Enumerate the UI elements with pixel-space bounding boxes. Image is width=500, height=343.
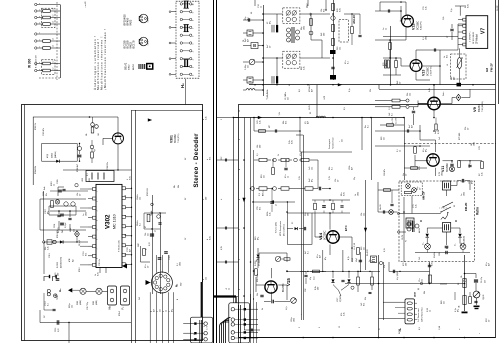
svg-text:100k: 100k bbox=[474, 142, 476, 146]
svg-text:R302: R302 bbox=[93, 301, 95, 305]
svg-text:Osc.: Osc. bbox=[305, 2, 309, 8]
svg-text:560: 560 bbox=[324, 33, 326, 36]
svg-text:G8: G8 bbox=[485, 68, 489, 72]
svg-text:0,1µ: 0,1µ bbox=[451, 8, 453, 12]
svg-text:4k7: 4k7 bbox=[312, 89, 314, 92]
svg-text:22n: 22n bbox=[444, 301, 446, 304]
svg-text:1k: 1k bbox=[430, 310, 432, 312]
svg-text:T 93 (07%): T 93 (07%) bbox=[178, 133, 180, 143]
svg-text:BC258C: BC258C bbox=[446, 163, 449, 172]
svg-text:↓: ↓ bbox=[300, 314, 303, 315]
svg-text:7: 7 bbox=[97, 248, 99, 249]
svg-text:BC238C: BC238C bbox=[427, 67, 430, 76]
svg-text:R1: R1 bbox=[310, 112, 312, 114]
svg-text:(0): (0) bbox=[305, 121, 307, 124]
svg-text:1n: 1n bbox=[369, 260, 371, 262]
svg-text:1n: 1n bbox=[83, 214, 85, 216]
svg-text:R302 1k: R302 1k bbox=[35, 123, 37, 130]
svg-text:V301: V301 bbox=[170, 135, 174, 143]
svg-text:3,3k: 3,3k bbox=[260, 120, 262, 124]
svg-text:25k: 25k bbox=[257, 293, 259, 296]
svg-text:AM-ZF: AM-ZF bbox=[422, 191, 426, 200]
svg-text:C60 47n: C60 47n bbox=[384, 169, 386, 176]
svg-text:1h5: 1h5 bbox=[419, 257, 421, 260]
svg-text:56k: 56k bbox=[407, 93, 409, 96]
svg-text:1k: 1k bbox=[166, 310, 168, 312]
svg-text:R6: R6 bbox=[458, 283, 460, 285]
svg-text:5: 5 bbox=[97, 229, 99, 230]
svg-text:2· 1•94•0•7•↑↓: 2· 1•94•0•7•↑↓ bbox=[470, 31, 472, 42]
svg-text:C301 47n: C301 47n bbox=[43, 128, 45, 136]
svg-text:3,3k: 3,3k bbox=[416, 204, 418, 208]
svg-text:D301: D301 bbox=[52, 152, 54, 158]
svg-text:5,6k: 5,6k bbox=[443, 17, 445, 20]
svg-text:(9V1): (9V1) bbox=[259, 261, 261, 266]
svg-text:9: 9 bbox=[239, 289, 241, 290]
svg-text:3,3k: 3,3k bbox=[270, 212, 272, 216]
svg-text:3,3k: 3,3k bbox=[344, 312, 346, 316]
svg-text:10k: 10k bbox=[321, 9, 323, 12]
svg-text:33k: 33k bbox=[465, 127, 467, 130]
svg-text:15k 15k: 15k 15k bbox=[434, 252, 436, 258]
svg-text:10k: 10k bbox=[361, 213, 363, 216]
svg-text:29 301-306.01: 29 301-306.01 bbox=[473, 32, 475, 44]
svg-text:1k: 1k bbox=[355, 194, 357, 196]
svg-text:10: 10 bbox=[193, 3, 195, 5]
svg-text:Uₜₛ-5V: Uₜₛ-5V bbox=[392, 117, 394, 124]
svg-text:3: 3 bbox=[239, 229, 241, 230]
svg-text:R90 150k: R90 150k bbox=[257, 274, 259, 282]
svg-text:BC238C: BC238C bbox=[324, 230, 327, 240]
svg-text:T 93 (90–92): T 93 (90–92) bbox=[119, 240, 121, 252]
svg-text:12k: 12k bbox=[72, 305, 74, 308]
svg-text:V7: V7 bbox=[481, 28, 487, 34]
svg-text:560: 560 bbox=[308, 213, 310, 216]
svg-text:1k: 1k bbox=[288, 176, 290, 178]
svg-text:1 2 3: 1 2 3 bbox=[207, 326, 209, 330]
svg-text:0,2W: 0,2W bbox=[438, 129, 440, 134]
svg-text:1 2 3: 1 2 3 bbox=[148, 19, 150, 23]
svg-text:47n: 47n bbox=[145, 265, 147, 268]
svg-text:1(R) 83: 1(R) 83 bbox=[483, 295, 485, 300]
svg-text:22n: 22n bbox=[160, 309, 162, 312]
svg-text:P₆: P₆ bbox=[121, 307, 125, 310]
svg-text:15k: 15k bbox=[335, 179, 337, 182]
svg-text:4k7: 4k7 bbox=[130, 249, 132, 252]
svg-text:V14: V14 bbox=[318, 232, 323, 240]
svg-text:10k: 10k bbox=[424, 291, 426, 294]
svg-text:D₁₀: D₁₀ bbox=[423, 242, 425, 245]
svg-text:12: 12 bbox=[239, 110, 241, 112]
svg-text:USW: USW bbox=[352, 258, 354, 262]
svg-text:L301: L301 bbox=[89, 178, 91, 182]
svg-text:AM-ZF: AM-ZF bbox=[352, 15, 356, 24]
svg-text:C317 22µ: C317 22µ bbox=[87, 301, 89, 310]
svg-text:V9: V9 bbox=[472, 106, 477, 112]
svg-text:22k: 22k bbox=[45, 247, 47, 250]
svg-text:1,5k: 1,5k bbox=[279, 112, 281, 115]
svg-text:1 2 3: 1 2 3 bbox=[148, 42, 150, 46]
svg-text:0,3V: 0,3V bbox=[439, 171, 441, 176]
svg-text:V13: V13 bbox=[422, 70, 426, 76]
svg-text:5: 5 bbox=[239, 259, 241, 260]
svg-text:(6V): (6V) bbox=[74, 229, 76, 232]
svg-text:Ratio: Ratio bbox=[442, 92, 445, 96]
svg-text:R70: R70 bbox=[419, 167, 421, 170]
svg-text:1k: 1k bbox=[95, 274, 97, 276]
svg-text:10k: 10k bbox=[178, 185, 180, 188]
svg-text:1,2: 1,2 bbox=[53, 67, 55, 69]
svg-text:2: 2 bbox=[97, 201, 99, 202]
svg-text:1k: 1k bbox=[372, 260, 374, 262]
svg-text:560: 560 bbox=[318, 287, 320, 290]
svg-text:4: 4 bbox=[97, 220, 99, 221]
svg-text:12k: 12k bbox=[340, 47, 342, 50]
svg-text:0,1: 0,1 bbox=[466, 279, 468, 282]
svg-text:0,1: 0,1 bbox=[248, 17, 250, 20]
svg-text:R312: R312 bbox=[79, 267, 81, 272]
svg-text:T 90 (90,9%): T 90 (90,9%) bbox=[482, 101, 484, 112]
svg-text:0,1: 0,1 bbox=[392, 113, 394, 116]
svg-text:4,7µ: 4,7µ bbox=[314, 277, 316, 280]
svg-text:47n: 47n bbox=[384, 265, 386, 268]
svg-text:ZF-Modul: ZF-Modul bbox=[477, 34, 479, 44]
svg-text:2k2: 2k2 bbox=[139, 297, 141, 300]
svg-text:8n2: 8n2 bbox=[324, 9, 326, 12]
svg-text:8: 8 bbox=[193, 20, 195, 21]
svg-text:7: 7 bbox=[193, 28, 195, 29]
svg-text:9: 9 bbox=[125, 215, 127, 216]
svg-text:R72 680: R72 680 bbox=[459, 133, 461, 140]
svg-text:100k: 100k bbox=[464, 192, 466, 196]
svg-text:L301: L301 bbox=[82, 178, 84, 182]
svg-text:AM–0,1: AM–0,1 bbox=[262, 190, 265, 196]
svg-text:3,3k: 3,3k bbox=[48, 246, 50, 250]
svg-text:1n: 1n bbox=[383, 28, 385, 30]
svg-text:1,2: 1,2 bbox=[53, 21, 55, 23]
svg-text:1 2 3 4: 1 2 3 4 bbox=[415, 292, 417, 297]
svg-text:560: 560 bbox=[260, 145, 262, 148]
svg-text:12k: 12k bbox=[257, 145, 259, 148]
svg-text:C315 1n: C315 1n bbox=[99, 259, 101, 266]
svg-text:22n: 22n bbox=[148, 233, 150, 236]
svg-text:Zusatzgerät: Zusatzgerät bbox=[328, 139, 331, 149]
svg-text:4: 4 bbox=[177, 299, 179, 300]
svg-text:10,7MHz: 10,7MHz bbox=[285, 92, 287, 100]
svg-text:C305: C305 bbox=[57, 179, 59, 184]
svg-text:R310 47k: R310 47k bbox=[57, 230, 59, 238]
svg-text:11: 11 bbox=[125, 254, 127, 256]
svg-text:9(?)107%: 9(?)107% bbox=[340, 295, 342, 302]
svg-text:6,3: 6,3 bbox=[419, 327, 421, 330]
svg-text:0,1: 0,1 bbox=[48, 303, 50, 306]
svg-text:MC 1310: MC 1310 bbox=[113, 214, 117, 229]
svg-text:560: 560 bbox=[406, 263, 408, 266]
svg-text:BB142: BB142 bbox=[125, 62, 128, 70]
svg-text:15k: 15k bbox=[461, 275, 463, 278]
svg-text:47µ: 47µ bbox=[310, 277, 312, 280]
svg-text:C304: C304 bbox=[54, 224, 56, 228]
svg-text:3,3k: 3,3k bbox=[206, 116, 208, 120]
svg-text:ETC: ETC bbox=[344, 225, 348, 231]
svg-text:BF254: BF254 bbox=[477, 104, 481, 112]
svg-text:22n: 22n bbox=[248, 65, 250, 68]
svg-text:1,2: 1,2 bbox=[53, 60, 55, 62]
svg-text:47k: 47k bbox=[341, 313, 343, 316]
svg-text:470µF: 470µF bbox=[70, 227, 72, 232]
svg-text:15k: 15k bbox=[365, 297, 367, 300]
svg-text:4k7: 4k7 bbox=[248, 39, 250, 42]
svg-text:L2: L2 bbox=[289, 84, 291, 86]
svg-text:8n2: 8n2 bbox=[210, 157, 212, 160]
svg-text:100k: 100k bbox=[304, 26, 306, 30]
svg-text:10k: 10k bbox=[77, 193, 79, 196]
svg-text:9-4(107%): 9-4(107%) bbox=[421, 21, 423, 30]
svg-text:0,1: 0,1 bbox=[257, 154, 259, 157]
svg-text:19kHz: 19kHz bbox=[137, 194, 139, 200]
svg-text:≈: ≈ bbox=[479, 333, 481, 334]
svg-text:0,1: 0,1 bbox=[308, 251, 310, 254]
svg-text:3: 3 bbox=[97, 210, 99, 211]
svg-text:0,22µF: 0,22µF bbox=[65, 221, 67, 228]
svg-text:1,2: 1,2 bbox=[53, 45, 55, 47]
svg-text:Um: Um bbox=[403, 173, 405, 176]
svg-text:1k: 1k bbox=[54, 184, 56, 186]
svg-text:1k: 1k bbox=[444, 56, 446, 58]
svg-text:5,6k: 5,6k bbox=[289, 140, 291, 144]
svg-text:C2 4,7µ: C2 4,7µ bbox=[481, 277, 483, 283]
svg-text:100k: 100k bbox=[358, 192, 360, 196]
svg-text:9: 9 bbox=[193, 12, 195, 13]
svg-text:43µF: 43µF bbox=[356, 258, 358, 262]
svg-text:8: 8 bbox=[239, 199, 241, 200]
svg-text:L9: L9 bbox=[447, 64, 449, 66]
svg-text:0,1: 0,1 bbox=[348, 61, 350, 64]
svg-text:12: 12 bbox=[339, 326, 341, 328]
svg-text:T301: T301 bbox=[57, 296, 59, 300]
svg-text:1k: 1k bbox=[229, 288, 231, 290]
svg-text:1n5: 1n5 bbox=[439, 137, 441, 140]
svg-text:10: 10 bbox=[125, 234, 127, 236]
svg-text:100k: 100k bbox=[294, 318, 296, 322]
svg-text:2: 2 bbox=[193, 67, 195, 68]
svg-text:2: 2 bbox=[221, 119, 223, 120]
svg-text:C308 22n: C308 22n bbox=[107, 162, 109, 170]
svg-text:R?: R? bbox=[145, 226, 147, 228]
svg-text:94/22: 94/22 bbox=[129, 64, 131, 70]
svg-text:11k: 11k bbox=[174, 185, 176, 188]
svg-text:C313: C313 bbox=[49, 253, 51, 258]
svg-text:0,1: 0,1 bbox=[140, 223, 142, 226]
svg-text:0,1/: 0,1/ bbox=[259, 193, 261, 196]
svg-text:D₁₁: D₁₁ bbox=[455, 243, 457, 246]
svg-text:76k: 76k bbox=[145, 233, 147, 236]
svg-text:1+3 Stereo mod.: 1+3 Stereo mod. bbox=[417, 307, 420, 322]
svg-text:4: 4 bbox=[239, 169, 241, 170]
svg-text:U=2V: U=2V bbox=[309, 104, 311, 110]
svg-text:D?: D? bbox=[292, 222, 294, 224]
svg-text:8n2: 8n2 bbox=[260, 207, 262, 210]
svg-text:0,1: 0,1 bbox=[368, 125, 370, 128]
svg-text:22n: 22n bbox=[264, 175, 266, 178]
svg-text:68k: 68k bbox=[283, 121, 285, 124]
svg-text:2N (m)E: 2N (m)E bbox=[79, 240, 81, 246]
svg-text:4: 4 bbox=[193, 51, 195, 52]
svg-text:Pb-83V: Pb-83V bbox=[367, 249, 369, 256]
svg-text:C7: C7 bbox=[447, 36, 449, 38]
svg-text:0,22: 0,22 bbox=[58, 329, 60, 333]
svg-text:1,2: 1,2 bbox=[389, 107, 391, 110]
svg-text:C?: C? bbox=[276, 204, 278, 206]
svg-text:18k: 18k bbox=[459, 305, 461, 308]
svg-text:2: 2 bbox=[204, 326, 206, 327]
svg-text:R306 4k7: R306 4k7 bbox=[77, 164, 79, 172]
svg-text:(BZX83/C9V1): (BZX83/C9V1) bbox=[61, 257, 63, 268]
svg-text:R301: R301 bbox=[77, 301, 79, 305]
svg-text:*7,4/8,4MHz: *7,4/8,4MHz bbox=[267, 90, 269, 100]
svg-text:c: c bbox=[203, 199, 205, 200]
svg-text:22n: 22n bbox=[342, 139, 344, 142]
svg-text:C?: C? bbox=[155, 230, 157, 232]
svg-text:4k7: 4k7 bbox=[489, 263, 491, 266]
svg-text:BC178: BC178 bbox=[132, 40, 136, 48]
svg-text:(BA244): (BA244) bbox=[54, 151, 57, 158]
svg-text:4k7: 4k7 bbox=[308, 121, 310, 124]
svg-text:1,2: 1,2 bbox=[53, 38, 55, 40]
svg-text:3: 3 bbox=[359, 327, 361, 328]
svg-text:8: 8 bbox=[125, 195, 127, 196]
svg-text:6: 6 bbox=[97, 239, 99, 240]
svg-text:22n: 22n bbox=[288, 97, 290, 100]
svg-text:9422: 9422 bbox=[129, 19, 133, 25]
svg-text:1k: 1k bbox=[386, 28, 388, 30]
svg-text:D 303: D 303 bbox=[57, 261, 59, 268]
svg-text:8n2: 8n2 bbox=[86, 253, 88, 256]
svg-text:2: 2 bbox=[299, 327, 301, 328]
svg-text:C74: C74 bbox=[479, 147, 481, 150]
svg-text:12k: 12k bbox=[140, 197, 142, 200]
svg-text:U₀ₜ-5V: U₀ₜ-5V bbox=[396, 117, 398, 124]
svg-text:V16?: V16? bbox=[337, 298, 339, 302]
svg-text:V15: V15 bbox=[286, 278, 291, 286]
svg-text:1k: 1k bbox=[400, 150, 402, 152]
svg-text:V12: V12 bbox=[412, 24, 416, 30]
svg-text:9,1: 9,1 bbox=[251, 12, 253, 14]
svg-text:560: 560 bbox=[206, 197, 208, 200]
svg-text:12k: 12k bbox=[422, 279, 424, 282]
svg-text:100k: 100k bbox=[86, 212, 88, 216]
svg-text:BC238C: BC238C bbox=[417, 21, 420, 30]
svg-text:1: 1 bbox=[193, 75, 195, 76]
svg-text:BF450: BF450 bbox=[133, 63, 135, 70]
svg-text:5: 5 bbox=[319, 327, 321, 328]
svg-text:33n: 33n bbox=[305, 213, 307, 216]
svg-text:S2: S2 bbox=[454, 205, 456, 207]
svg-text:47n: 47n bbox=[285, 175, 287, 178]
svg-text:5: 5 bbox=[193, 44, 195, 45]
svg-text:22n: 22n bbox=[364, 247, 366, 250]
svg-text:—o<20: —o<20 bbox=[84, 1, 87, 8]
svg-text:38kHz: 38kHz bbox=[137, 220, 139, 226]
svg-text:M-ZF: M-ZF bbox=[497, 5, 499, 11]
svg-text:8 101 103 347: 8 101 103 347 bbox=[36, 54, 38, 68]
svg-text:0µ6: 0µ6 bbox=[73, 259, 75, 262]
svg-text:9: 9 bbox=[97, 267, 99, 268]
svg-text:4k7: 4k7 bbox=[320, 255, 322, 258]
svg-text:9,0: 9,0 bbox=[299, 89, 301, 92]
svg-text:R320 1M: R320 1M bbox=[147, 188, 149, 196]
svg-text:15k: 15k bbox=[451, 77, 453, 80]
svg-text:C80: C80 bbox=[439, 253, 441, 256]
svg-text:S-Kurve (39k): S-Kurve (39k) bbox=[276, 222, 278, 233]
svg-text:d: d bbox=[207, 239, 209, 240]
svg-text:560: 560 bbox=[454, 77, 456, 80]
svg-text:1: 1 bbox=[97, 191, 99, 192]
svg-text:100k: 100k bbox=[180, 262, 182, 266]
svg-text:Uₛₛ 0,1/8: Uₛₛ 0,1/8 bbox=[354, 243, 356, 250]
svg-text:Tonabnehmer: Tonabnehmer bbox=[332, 137, 335, 149]
svg-text:BC238C: BC238C bbox=[283, 283, 285, 292]
svg-text:V(µ): V(µ) bbox=[94, 149, 96, 152]
svg-text:2N3?: 2N3? bbox=[138, 243, 140, 247]
svg-text:8n2: 8n2 bbox=[447, 55, 449, 58]
svg-text:3,3k: 3,3k bbox=[482, 172, 484, 176]
svg-text:C320: C320 bbox=[169, 255, 171, 260]
svg-text:FM-ZF: FM-ZF bbox=[490, 63, 494, 72]
svg-text:12k: 12k bbox=[364, 213, 366, 216]
svg-text:0,5: 0,5 bbox=[344, 107, 346, 110]
svg-text:C319: C319 bbox=[55, 328, 57, 332]
svg-text:(Stereo (Mono): (Stereo (Mono) bbox=[283, 224, 286, 236]
svg-text:0,1: 0,1 bbox=[87, 173, 89, 176]
svg-text:FM-ZF: FM-ZF bbox=[464, 202, 468, 211]
svg-text:Fe: Fe bbox=[406, 240, 408, 242]
svg-text:5k: 5k bbox=[278, 154, 280, 156]
svg-text:R304 10k: R304 10k bbox=[35, 166, 37, 174]
svg-text:BC238C: BC238C bbox=[174, 134, 177, 143]
svg-text:Uʙ=5V: Uʙ=5V bbox=[380, 203, 382, 210]
svg-text:4k7: 4k7 bbox=[352, 167, 354, 170]
svg-text:1 93.97 (%): 1 93.97 (%) bbox=[431, 66, 433, 76]
svg-text:C92: C92 bbox=[305, 289, 307, 292]
svg-text:6: 6 bbox=[193, 36, 195, 37]
svg-text:100k: 100k bbox=[442, 172, 444, 176]
svg-text:100k: 100k bbox=[349, 166, 351, 170]
svg-text:12k: 12k bbox=[312, 167, 314, 170]
svg-text:H₂: H₂ bbox=[180, 83, 185, 88]
svg-text:560: 560 bbox=[58, 273, 60, 276]
svg-text:0,15: 0,15 bbox=[384, 248, 386, 252]
svg-text:Ratio: Ratio bbox=[476, 207, 480, 215]
svg-text:0,22: 0,22 bbox=[149, 242, 151, 246]
svg-text:GD: GD bbox=[181, 282, 183, 286]
svg-text:1: 1 bbox=[194, 334, 196, 335]
svg-text:47n: 47n bbox=[345, 61, 347, 64]
svg-text:8n2: 8n2 bbox=[364, 303, 366, 306]
svg-text:12k: 12k bbox=[206, 277, 208, 280]
svg-text:68n: 68n bbox=[341, 193, 343, 196]
svg-text:82n: 82n bbox=[46, 193, 48, 196]
svg-text:1k: 1k bbox=[262, 308, 264, 310]
svg-text:0,1: 0,1 bbox=[332, 167, 334, 170]
svg-text:1n: 1n bbox=[461, 194, 463, 196]
svg-text:6: 6 bbox=[239, 139, 241, 140]
svg-text:4,7µ 1(R)83: 4,7µ 1(R)83 bbox=[397, 271, 399, 280]
svg-text:W 300: W 300 bbox=[28, 59, 32, 68]
svg-text:8n2: 8n2 bbox=[464, 243, 466, 246]
svg-text:4k7: 4k7 bbox=[154, 309, 156, 312]
svg-text:22k: 22k bbox=[370, 89, 372, 92]
